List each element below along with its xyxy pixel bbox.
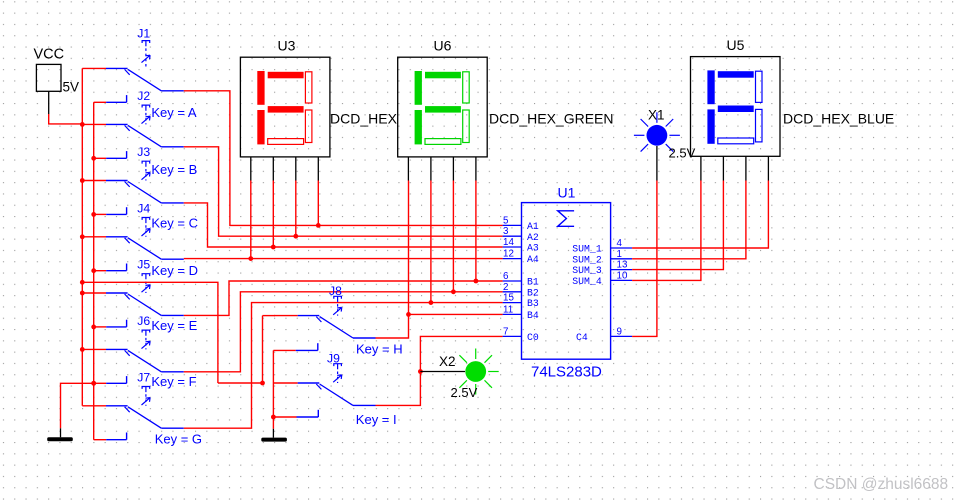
wire J8 output to B4 <box>376 314 409 338</box>
svg-text:2.5V: 2.5V <box>669 145 696 160</box>
wire J3 to A3 <box>184 203 503 247</box>
U1 pin 3 (A2) <box>503 226 539 243</box>
junction B3/U6 <box>429 300 434 305</box>
U6 segment e <box>415 110 422 144</box>
wire B4 row <box>409 313 503 315</box>
svg-text:SUM_1: SUM_1 <box>572 244 602 255</box>
svg-text:J8: J8 <box>329 284 342 298</box>
switch J3 <box>82 145 197 203</box>
svg-text:Key = D: Key = D <box>151 263 198 278</box>
wire U3 pin3 <box>295 181 297 237</box>
svg-text:U3: U3 <box>278 38 296 54</box>
U5 segment d <box>718 138 754 144</box>
U1 pin 15 (B3) <box>503 293 539 310</box>
wire VCC to key switches <box>82 282 218 383</box>
svg-text:B4: B4 <box>527 310 539 321</box>
seven-segment display U3 <box>240 38 330 181</box>
svg-text:Key = H: Key = H <box>356 342 403 357</box>
switch J2 <box>82 89 197 147</box>
U3 segment b <box>305 72 312 103</box>
wire J8 feed <box>262 316 264 383</box>
svg-text:DCD_HEX_GREEN: DCD_HEX_GREEN <box>489 111 613 127</box>
wire VCC rail <box>81 68 83 405</box>
junction keyswitch ground <box>271 415 276 420</box>
wire J9 output to C0 <box>376 336 503 405</box>
svg-text:Key = F: Key = F <box>151 374 196 389</box>
junction A1/U3 <box>316 223 321 228</box>
junction gnd rail J4 <box>91 268 96 273</box>
U5 segment f <box>707 70 714 104</box>
seven-segment display U5 <box>691 37 781 180</box>
U3 pin 1 <box>250 157 252 181</box>
svg-text:B1: B1 <box>527 277 539 288</box>
svg-text:12: 12 <box>503 249 514 260</box>
svg-text:B2: B2 <box>527 287 539 298</box>
svg-text:J2: J2 <box>137 89 150 103</box>
svg-text:J3: J3 <box>137 145 150 159</box>
junction VCC rail J5 <box>80 291 85 296</box>
U5 pin 2 <box>722 156 724 180</box>
U6 segment a <box>425 72 461 79</box>
junction VCC rail J2 <box>80 122 85 127</box>
U6 pin 3 <box>452 157 454 181</box>
switch J8 <box>263 284 403 357</box>
svg-text:Key = E: Key = E <box>151 318 197 333</box>
U6 pin 2 <box>430 157 432 181</box>
U6 segment f <box>415 71 422 105</box>
wire J4 to A4 <box>184 258 503 260</box>
U3 segment g <box>268 106 304 113</box>
U3 pin 3 <box>295 157 297 181</box>
U5 segment b <box>756 71 763 102</box>
junction gnd rail J3 <box>91 212 96 217</box>
switch J5 <box>82 258 198 316</box>
junction J8 feed <box>260 381 265 386</box>
wire J5 lower throw <box>94 320 127 327</box>
seven-segment display U6 <box>398 38 488 181</box>
U1 pin 6 (B1) <box>503 271 539 288</box>
junction gnd rail J6 <box>91 381 96 386</box>
svg-text:C4: C4 <box>576 332 588 343</box>
U1 pin 2 (B2) <box>503 282 539 299</box>
svg-text:A2: A2 <box>527 232 539 243</box>
U3 segment d <box>268 139 304 145</box>
wire J1 to A1 <box>184 91 503 226</box>
svg-text:A1: A1 <box>527 221 539 232</box>
junction B2/U6 <box>451 289 456 294</box>
switch J7 <box>82 371 196 429</box>
svg-text:J4: J4 <box>137 202 150 216</box>
svg-text:SUM_2: SUM_2 <box>572 254 602 265</box>
wire J8 lower throw <box>273 343 317 350</box>
U3 segment a <box>268 72 304 79</box>
svg-text:CSDN @zhusl6688: CSDN @zhusl6688 <box>814 476 949 493</box>
U1 pin 9 (C4) <box>576 326 632 343</box>
U3 pin 2 <box>272 157 274 181</box>
svg-text:J6: J6 <box>137 314 150 328</box>
svg-text:9: 9 <box>617 326 622 337</box>
junction X2 tap <box>418 369 423 374</box>
wire J2 lower throw <box>94 151 127 158</box>
svg-text:5V: 5V <box>63 80 80 95</box>
junction VCC rail J3 <box>80 178 85 183</box>
wire J3 lower throw <box>94 207 127 214</box>
U6 pin 1 <box>407 157 409 181</box>
switch J6 <box>82 314 197 372</box>
U5 segment a <box>718 71 754 78</box>
wire U6 pin3 <box>452 181 454 292</box>
wire left ground <box>61 383 94 437</box>
svg-text:J5: J5 <box>137 258 150 272</box>
wire X1 lead <box>656 146 658 181</box>
junction A3/U3 <box>271 245 276 250</box>
U5 pin 3 <box>745 156 747 180</box>
power source VCC <box>34 47 80 115</box>
U6 segment d <box>425 139 461 145</box>
svg-text:Key = C: Key = C <box>151 216 198 231</box>
wire X1 to C4 <box>632 181 657 337</box>
U1 pin 7 (C0) <box>503 326 539 343</box>
svg-text:J7: J7 <box>137 371 150 385</box>
wire J8/J9 throws to ground <box>272 350 274 428</box>
lamp X1 <box>634 108 696 161</box>
svg-text:U6: U6 <box>434 38 452 54</box>
svg-text:C0: C0 <box>527 332 539 343</box>
junction ground rail <box>91 381 96 386</box>
junction VCC rail J4 <box>80 234 85 239</box>
svg-text:DCD_HEX_BLUE: DCD_HEX_BLUE <box>783 111 894 127</box>
junction B1/U6 <box>474 279 479 284</box>
svg-text:DCD_HEX: DCD_HEX <box>330 111 398 127</box>
svg-text:2.5V: 2.5V <box>451 385 478 400</box>
U1 pin 5 (A1) <box>503 215 539 232</box>
wire J7 to B3 <box>184 303 503 429</box>
junction A2/U3 <box>293 234 298 239</box>
wire U3 pin1 <box>250 181 252 259</box>
U5 segment e <box>707 109 714 143</box>
ground left <box>47 437 73 441</box>
wire J9 lower throw <box>273 410 318 417</box>
svg-text:10: 10 <box>617 270 628 281</box>
U5 pin 4 <box>767 156 769 180</box>
svg-text:Key = G: Key = G <box>155 431 202 446</box>
wire SUM_3 to U5 pin2 <box>632 181 723 270</box>
U1 pin 10 (SUM_4) <box>572 270 632 287</box>
svg-text:A4: A4 <box>527 254 539 265</box>
U6 segment b <box>463 72 470 103</box>
U3 pin 4 <box>317 157 319 181</box>
junction A4/U3 <box>248 256 253 261</box>
wire SUM_4 to U5 pin1 <box>632 181 701 281</box>
wire J9 feed row <box>218 382 263 384</box>
wire J6 lower throw <box>94 376 127 383</box>
U1 pin 14 (A3) <box>503 237 539 254</box>
wire U6 pin2 <box>430 181 432 303</box>
svg-text:13: 13 <box>617 260 628 271</box>
svg-text:Key = I: Key = I <box>356 412 397 427</box>
wire J5 to B1 <box>184 281 503 315</box>
U1 pin 13 (SUM_3) <box>572 260 632 277</box>
switch J1 <box>82 26 184 90</box>
U1 pin 4 (SUM_1) <box>572 238 632 255</box>
wire U3 pin2 <box>272 181 274 248</box>
svg-text:U1: U1 <box>558 185 576 201</box>
svg-text:Key = A: Key = A <box>151 105 196 120</box>
svg-text:74LS283D: 74LS283D <box>531 364 602 381</box>
svg-text:7: 7 <box>503 326 508 337</box>
wire SUM_2 to U5 pin3 <box>632 181 746 259</box>
svg-text:14: 14 <box>503 237 514 248</box>
wire VCC to rail <box>49 114 83 124</box>
junction B4/U6 <box>406 312 411 317</box>
U6 pin 4 <box>475 157 477 181</box>
wire middle ground <box>272 429 274 438</box>
lamp X2 <box>439 349 499 400</box>
U3 segment c <box>305 110 312 143</box>
op-amp adder U1 74LS283D body <box>522 185 611 381</box>
wire J7 lower throw <box>94 433 127 440</box>
svg-text:15: 15 <box>503 293 514 304</box>
wire U6 pin1 <box>408 181 410 315</box>
U1 pin 11 (B4) <box>503 304 539 321</box>
U1 pin 1 (SUM_2) <box>572 249 632 266</box>
svg-text:A3: A3 <box>527 243 539 254</box>
wire J4 lower throw <box>94 264 127 271</box>
U5 segment c <box>756 109 763 141</box>
wire U3 pin4 <box>317 181 319 226</box>
junction VCC rail keyswitch feed <box>80 280 85 285</box>
U1 pin 12 (A4) <box>503 249 539 266</box>
junction gnd rail J5 <box>91 325 96 330</box>
wire SUM_1 to U5 pin4 <box>632 181 768 249</box>
junction gnd rail J2 <box>91 156 96 161</box>
svg-text:SUM_3: SUM_3 <box>572 265 602 276</box>
wire U6 pin4 <box>475 181 477 282</box>
ground middle <box>261 438 287 442</box>
svg-text:4: 4 <box>617 238 623 249</box>
wire J6 to B2 <box>184 292 503 372</box>
switch J9 <box>274 352 397 427</box>
wire X2 lead <box>420 371 465 373</box>
svg-text:B3: B3 <box>527 298 539 309</box>
U5 segment g <box>718 106 754 113</box>
wire J2 to A2 <box>184 147 503 236</box>
U3 segment f <box>257 71 264 105</box>
svg-text:2: 2 <box>503 282 508 293</box>
wire ground rail <box>93 102 95 439</box>
svg-text:1: 1 <box>617 249 622 260</box>
svg-text:U5: U5 <box>727 37 745 53</box>
svg-text:Key = B: Key = B <box>151 162 197 177</box>
svg-text:6: 6 <box>503 271 509 282</box>
junction VCC rail J6 <box>80 347 85 352</box>
switch J4 <box>82 202 198 260</box>
svg-text:J1: J1 <box>137 26 150 40</box>
svg-text:X2: X2 <box>439 354 456 369</box>
U6 segment c <box>463 110 470 143</box>
wire J1 lower throw <box>94 95 127 102</box>
svg-text:3: 3 <box>503 226 509 237</box>
U5 pin 1 <box>700 156 702 180</box>
svg-text:X1: X1 <box>648 108 665 123</box>
svg-text:VCC: VCC <box>34 47 65 63</box>
svg-text:11: 11 <box>503 304 513 315</box>
U3 segment e <box>257 110 264 144</box>
svg-text:SUM_4: SUM_4 <box>572 276 602 287</box>
svg-text:5: 5 <box>503 215 509 226</box>
U6 segment g <box>425 106 461 113</box>
